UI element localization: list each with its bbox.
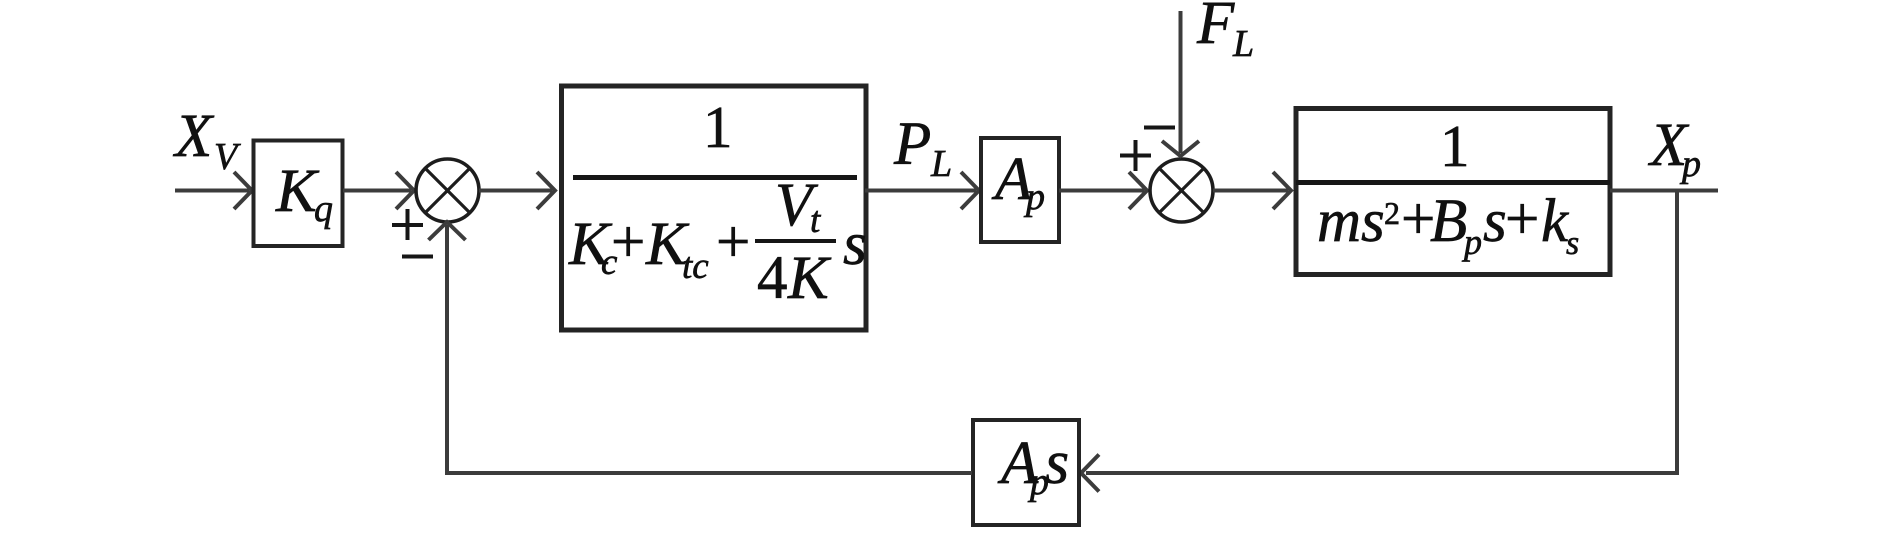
svg-text:X: X [172,103,215,170]
summing junction S2 [1150,159,1213,222]
wire feedback bottom into Aps [1081,455,1677,492]
wire G2 output to X_p [1610,189,1718,193]
wire Kq to summing junction S1 [343,172,414,209]
node X_p output label [1647,112,1701,185]
svg-text:F: F [1196,0,1235,57]
svg-text:p: p [1679,143,1701,185]
svg-text:s: s [843,211,867,278]
svg-text:1: 1 [703,94,733,160]
block G2 transfer function 1/(ms2+Bps+ks) [1296,109,1610,275]
svg-text:+: + [1505,186,1539,253]
svg-text:s: s [1566,225,1579,262]
svg-text:1: 1 [1440,113,1470,179]
svg-text:t: t [810,200,822,241]
block Kq [254,141,343,247]
svg-text:tc: tc [682,246,709,287]
svg-text:ms: ms [1317,188,1385,255]
svg-text:V: V [214,136,241,178]
svg-text:+: + [611,209,645,276]
wire G1 to Ap [865,172,979,209]
svg-text:p: p [1461,222,1482,262]
wire Ap to summing junction S2 [1059,172,1147,209]
fraction bar of G2 [1296,180,1610,185]
svg-text:4: 4 [757,245,788,312]
node F_L load force label [1196,0,1254,65]
svg-text:P: P [893,111,931,178]
svg-text:K: K [787,245,832,312]
svg-text:p: p [1023,176,1045,218]
svg-text:2: 2 [1384,195,1400,231]
wire feedback vertical drop at output junction [1675,191,1679,476]
fraction bar of G1 [573,175,857,180]
wire F_L down into S2 [1162,11,1199,156]
node P_L label [893,111,952,185]
plus sign at S1 [392,209,423,240]
plus sign at S2 [1120,140,1151,171]
minus sign at S1 [402,255,433,259]
minus sign at S2 [1144,126,1175,130]
wire feedback up into S1 [429,222,466,475]
svg-text:L: L [1232,23,1254,65]
block Aps [973,420,1079,525]
svg-text:+: + [716,209,750,276]
svg-text:q: q [314,188,333,230]
svg-text:s: s [1045,429,1069,497]
wire S2 to block G2 [1213,172,1291,209]
summing junction S1 [416,159,479,222]
svg-text:k: k [1541,188,1569,255]
node X_V input label [172,103,241,178]
block Ap [981,138,1059,242]
wire input arrow into Kq [175,172,252,209]
wire Aps to feedback corner [445,471,972,475]
svg-text:s: s [1483,188,1507,255]
svg-text:B: B [1430,188,1467,255]
wire S1 to block G1 [479,172,555,209]
block G1 transfer function 1/(Kc+Ktc+(Vt/4K)s) [562,86,867,330]
svg-text:L: L [930,143,952,185]
